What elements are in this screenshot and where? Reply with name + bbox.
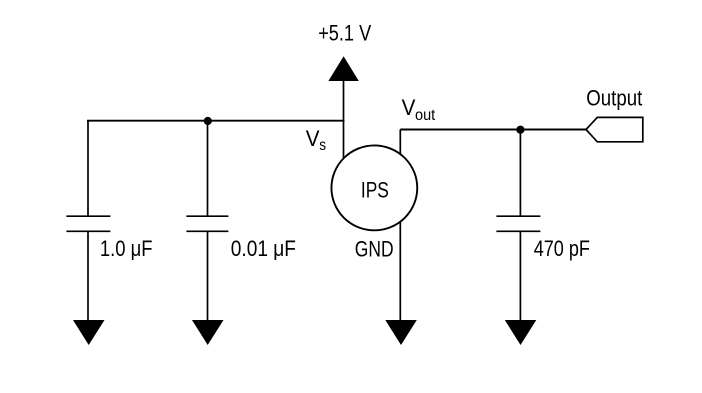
svg-text:1.0 μF: 1.0 μF [100,236,153,261]
svg-text:V: V [402,95,416,120]
svg-text:+5.1 V: +5.1 V [318,20,371,45]
svg-text:0.01 μF: 0.01 μF [231,236,296,261]
svg-text:V: V [306,126,320,151]
svg-text:out: out [415,107,436,124]
svg-text:Output: Output [586,86,643,111]
svg-text:470 pF: 470 pF [534,236,590,261]
svg-text:GND: GND [355,236,394,261]
svg-text:s: s [319,137,326,154]
svg-text:IPS: IPS [361,178,389,203]
